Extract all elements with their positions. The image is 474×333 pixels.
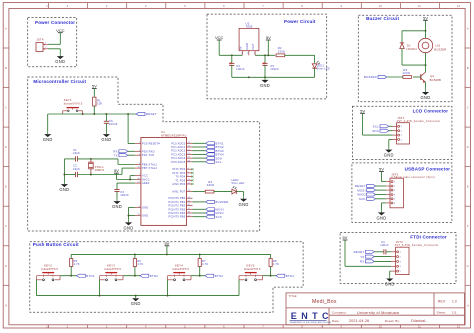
svg-text:PC5 ADC5: PC5 ADC5 — [171, 160, 185, 164]
svg-text:E: E — [5, 185, 7, 189]
svg-text:100nF: 100nF — [109, 122, 118, 126]
global label RESET ftdi — [354, 250, 375, 254]
svg-text:button6*6*6.5: button6*6*6.5 — [105, 268, 122, 271]
transistor Q1 BC548B — [421, 72, 441, 82]
global label BUZZER — [364, 75, 387, 79]
wire KEY5 node — [263, 275, 277, 277]
resistor R3 330 — [205, 180, 214, 193]
wire RX ftdi — [374, 260, 391, 262]
svg-text:5V: 5V — [164, 241, 169, 246]
svg-text:16: 16 — [188, 204, 190, 206]
svg-text:PD1 TXD: PD1 TXD — [142, 153, 154, 157]
global label RESET usbasp — [355, 184, 376, 188]
svg-text:SCK: SCK — [216, 215, 223, 219]
wire RX to PD0 — [128, 150, 135, 152]
wire base to R4 — [413, 76, 421, 78]
svg-text:13: 13 — [188, 190, 190, 192]
svg-text:22: 22 — [137, 214, 139, 216]
Power Connector dashed box — [28, 18, 77, 67]
power flag 5V usbasp — [379, 167, 384, 172]
svg-text:AIN1 PD7: AIN1 PD7 — [172, 190, 185, 194]
wire RESET usbasp — [376, 185, 386, 187]
svg-text:GND: GND — [142, 205, 148, 209]
wire 5V to pin3 — [362, 113, 364, 135]
wire caps to ground — [63, 159, 65, 182]
junction R5 bottom — [70, 275, 72, 277]
title block — [286, 293, 465, 325]
svg-text:LS1: LS1 — [435, 43, 441, 47]
svg-text:16MHz: 16MHz — [95, 168, 105, 172]
svg-text:GND: GND — [421, 95, 431, 100]
svg-text:1: 1 — [45, 43, 46, 45]
svg-text:4.7K: 4.7K — [273, 262, 279, 266]
svg-text:GND: GND — [59, 187, 69, 192]
svg-text:G: G — [467, 264, 469, 268]
global label BTN3 — [205, 274, 223, 278]
wire KEY2 to ground rail — [36, 280, 38, 296]
svg-text:PCINT5 PB5: PCINT5 PB5 — [169, 215, 186, 219]
svg-text:4.7K: 4.7K — [137, 262, 143, 266]
svg-text:VCC: VCC — [215, 35, 224, 40]
capacitor C6 100nF — [104, 114, 118, 132]
wire TX to PD1 — [128, 154, 135, 156]
connector JST3 2.54mm male 6pin — [386, 172, 435, 208]
global label SDA — [206, 156, 222, 160]
svg-text:PD0 RXD: PD0 RXD — [142, 149, 155, 153]
diode D1 1N4001 — [400, 43, 417, 51]
svg-text:1.0: 1.0 — [452, 300, 457, 304]
wire R3 to LED2 — [214, 191, 232, 193]
resistor R4 220 — [403, 68, 412, 79]
junction crystal top — [90, 158, 92, 160]
svg-text:RX: RX — [360, 260, 365, 264]
svg-text:JST4: JST4 — [36, 38, 44, 42]
svg-text:BUZZER: BUZZER — [364, 75, 377, 79]
wire VCC to regulator IN — [218, 40, 220, 55]
ground symbol MCU — [124, 220, 134, 231]
ground bus power circuit — [232, 76, 315, 78]
svg-text:22pF: 22pF — [73, 151, 80, 155]
global label SCK — [206, 215, 222, 219]
svg-text:University of Moratuwa: University of Moratuwa — [357, 311, 400, 315]
svg-text:JST_5-PIN_Female_Connector: JST_5-PIN_Female_Connector — [395, 244, 439, 247]
global label MISO — [206, 211, 225, 215]
wire PB4 to MISO — [193, 212, 206, 214]
global label RESET — [136, 112, 157, 116]
svg-text:1: 1 — [394, 182, 395, 184]
svg-text:GND: GND — [377, 215, 387, 220]
global label BTN4 — [276, 274, 294, 278]
ground symbol KEY1 — [43, 132, 53, 143]
wire 5V to R1 — [93, 89, 95, 98]
resistor R8 4.7K — [269, 254, 279, 275]
svg-text:18: 18 — [188, 212, 190, 214]
button 5V rail — [71, 253, 270, 255]
svg-text:2: 2 — [45, 47, 46, 49]
wire PD7 to R3 — [193, 191, 206, 193]
wire pin4 to ground — [389, 138, 393, 140]
svg-text:2: 2 — [401, 131, 402, 133]
svg-text:C: C — [467, 106, 469, 110]
svg-text:D1: D1 — [407, 44, 411, 48]
power flag 5V output — [266, 35, 271, 40]
svg-text:AVCC: AVCC — [142, 178, 150, 182]
svg-text:GND: GND — [55, 59, 65, 64]
junction R1 bottom — [93, 113, 95, 115]
ground symbol power circuit — [260, 77, 270, 88]
svg-text:100nF: 100nF — [120, 193, 129, 197]
wire 5V to rail — [166, 246, 168, 255]
svg-text:PCINT2 PB2: PCINT2 PB2 — [169, 204, 186, 208]
LED LED2 5mm — [232, 178, 245, 194]
svg-text:Power Connector: Power Connector — [35, 20, 75, 25]
svg-text:H: H — [467, 303, 469, 307]
svg-text:17: 17 — [188, 208, 190, 210]
svg-text:B: B — [5, 66, 7, 70]
switch KEY4 6x6mm — [168, 264, 192, 281]
switch KEY3 6x6mm — [100, 264, 124, 281]
wire SDA to pin2 — [389, 130, 393, 132]
svg-text:GND: GND — [112, 204, 122, 209]
svg-text:4: 4 — [188, 168, 189, 170]
svg-text:Company:: Company: — [332, 311, 347, 315]
svg-text:Drawn By:: Drawn By: — [385, 319, 400, 323]
ground symbol LED2 — [239, 196, 249, 207]
svg-text:PC0 ADC0: PC0 ADC0 — [171, 141, 185, 145]
wire KEY5 to ground rail — [238, 280, 240, 296]
ground symbol power connector — [55, 54, 65, 65]
wire PB1 to BUZZER label — [193, 201, 206, 203]
wire top branch to diode D1 — [402, 30, 426, 32]
wire KEY1 to ground — [47, 114, 49, 132]
wire MOSI usbasp — [376, 189, 386, 191]
svg-text:PC6 RESET#: PC6 RESET# — [142, 142, 160, 146]
wire SCL to pin1 — [389, 125, 393, 127]
svg-text:3: 3 — [400, 261, 401, 263]
power flag 5V lcd — [360, 108, 365, 113]
svg-text:PB7 XTAL2: PB7 XTAL2 — [142, 166, 158, 170]
wire R2 to LED1 — [285, 54, 315, 56]
wire MCU GND pins — [129, 206, 135, 208]
svg-text:5V: 5V — [343, 235, 348, 240]
svg-text:5V: 5V — [114, 168, 119, 173]
svg-text:Medi_Box: Medi_Box — [312, 299, 337, 305]
svg-text:AREF: AREF — [142, 181, 150, 185]
svg-text:2: 2 — [247, 53, 248, 55]
svg-text:330Ω: 330Ω — [207, 183, 214, 187]
global label BUZZER mcu — [206, 200, 229, 204]
switch KEY1 6x6mm — [63, 98, 83, 114]
resistor R2 220 — [276, 46, 285, 57]
svg-text:PC3 ADC3: PC3 ADC3 — [171, 152, 185, 156]
svg-text:5mm-LED: 5mm-LED — [317, 67, 330, 71]
svg-text:INT1 PD3: INT1 PD3 — [172, 171, 185, 175]
svg-text:4.7K: 4.7K — [74, 262, 80, 266]
connector JST2 5-pin female — [391, 240, 439, 275]
ENTC logo — [290, 311, 333, 324]
svg-text:LCD Connector: LCD Connector — [413, 108, 449, 113]
svg-text:R4: R4 — [403, 68, 407, 72]
svg-text:10K: 10K — [97, 102, 103, 106]
svg-text:6: 6 — [394, 203, 395, 205]
svg-text:E: E — [467, 185, 469, 189]
junction C5 on bus — [264, 76, 266, 78]
power flag VCC — [56, 28, 65, 33]
wire KEY3 to ground rail — [99, 280, 101, 296]
svg-text:Sheet:: Sheet: — [437, 310, 447, 314]
svg-text:BTN1: BTN1 — [86, 274, 94, 278]
crystal XTAL1 16MHz — [88, 159, 105, 175]
FTDI Connector dashed box — [340, 233, 456, 284]
wire TX ftdi — [374, 256, 391, 258]
resistor R7 4.7K — [198, 254, 208, 275]
wire R4 to BUZZER label — [387, 76, 403, 78]
svg-text:10: 10 — [137, 167, 139, 169]
svg-text:28: 28 — [188, 160, 190, 162]
svg-text:Push Button Circuit: Push Button Circuit — [33, 242, 79, 247]
svg-text:BTN4: BTN4 — [286, 274, 294, 278]
ground symbol ftdi — [385, 276, 395, 287]
junction 5V — [267, 54, 269, 56]
svg-text:SCL: SCL — [373, 125, 379, 129]
wires PC0-PC5 to labels — [193, 143, 206, 162]
wire 5V to pin4 ftdi — [344, 240, 346, 266]
wire SCK usbasp — [376, 198, 386, 200]
svg-text:SCK: SCK — [359, 197, 366, 201]
svg-text:PC4 ADC4: PC4 ADC4 — [171, 156, 185, 160]
svg-text:D: D — [5, 145, 7, 149]
svg-text:4: 4 — [400, 266, 401, 268]
svg-text:4.7K: 4.7K — [202, 262, 208, 266]
U1 right pins — [169, 141, 193, 218]
wire crystal row 2 — [64, 174, 75, 176]
global label SDA lcd — [372, 129, 388, 133]
junction R7 bottom — [199, 275, 201, 277]
wire LED1 to ground bus — [314, 68, 316, 77]
svg-text:PB6 XTAL1: PB6 XTAL1 — [142, 163, 158, 167]
svg-text:12: 12 — [188, 183, 190, 185]
wire emitter to ground — [425, 82, 427, 89]
global label TX ftdi — [360, 255, 374, 259]
wire connector pin 2 to GND — [48, 48, 60, 50]
junction rail GND — [135, 295, 137, 297]
global label TX — [114, 153, 128, 157]
svg-text:TITLE:: TITLE: — [289, 294, 298, 298]
svg-text:3: 3 — [139, 154, 140, 156]
regulator U2 7805 — [238, 22, 259, 56]
svg-text:22pF: 22pF — [73, 167, 80, 171]
Microcontroller Circuit dashed box — [28, 77, 260, 231]
power flag 5V reset pullup — [92, 84, 97, 89]
svg-text:1: 1 — [401, 126, 402, 128]
svg-text:24: 24 — [188, 146, 190, 148]
wire reset to pin 1 — [127, 114, 129, 144]
svg-text:27: 27 — [188, 157, 190, 159]
global label SCL — [206, 160, 222, 164]
connector JST4 — [36, 38, 48, 52]
wire crystal row 1 — [64, 158, 75, 160]
junction C5 top — [264, 54, 266, 56]
svg-text:4: 4 — [394, 194, 395, 196]
svg-text:RESET: RESET — [146, 112, 157, 116]
svg-text:ENTC: ENTC — [291, 311, 333, 321]
svg-text:REV:: REV: — [438, 300, 446, 304]
svg-text:H: H — [5, 303, 7, 307]
svg-text:TX: TX — [360, 255, 364, 259]
svg-text:A: A — [467, 26, 469, 30]
global label MISO usbasp — [357, 193, 375, 197]
svg-text:T0 PD4: T0 PD4 — [175, 175, 185, 179]
svg-text:BTN3: BTN3 — [215, 274, 223, 278]
junction regulator GND on bus — [248, 76, 250, 78]
global label SCK usbasp — [359, 197, 375, 201]
svg-text:JST_4-PIN_Female_Connector: JST_4-PIN_Female_Connector — [397, 120, 441, 123]
wire KEY3 node — [123, 275, 140, 277]
svg-text:14: 14 — [188, 197, 190, 199]
power flag 5V buttons — [164, 241, 169, 246]
global label BTN3 — [206, 149, 224, 153]
junction R6 bottom — [134, 275, 136, 277]
junction VCC branch — [129, 179, 131, 181]
Push Button Circuit dashed box — [30, 242, 303, 313]
svg-text:26: 26 — [188, 153, 190, 155]
svg-text:DilankaL: DilankaL — [411, 319, 427, 323]
svg-text:5: 5 — [394, 199, 395, 201]
svg-text:GND: GND — [124, 225, 134, 230]
capacitor C4 100nF — [229, 55, 245, 77]
svg-text:2021-04-26: 2021-04-26 — [349, 319, 369, 323]
reset net wire — [48, 113, 137, 115]
svg-text:G: G — [5, 264, 7, 268]
svg-text:B: B — [467, 66, 469, 70]
svg-text:ATMEGA328P-PU: ATMEGA328P-PU — [161, 133, 187, 137]
svg-text:PCINT4 PB4: PCINT4 PB4 — [169, 211, 186, 215]
ground symbol crystal — [59, 182, 69, 193]
wire diode bottom to buzzer line — [401, 49, 403, 66]
svg-text:220Ω: 220Ω — [403, 71, 410, 75]
power flag 5V AVCC — [114, 168, 119, 173]
svg-text:1: 1 — [139, 142, 140, 144]
wire LED2 to ground — [236, 191, 243, 193]
svg-text:100nF: 100nF — [270, 67, 279, 71]
ground symbol lcd — [384, 147, 394, 158]
svg-text:100nF: 100nF — [380, 243, 389, 247]
power flag VCC input — [215, 35, 224, 40]
svg-text:PCINT1 PB1: PCINT1 PB1 — [169, 200, 186, 204]
svg-text:5: 5 — [188, 172, 189, 174]
svg-text:button6*6*6.5: button6*6*6.5 — [42, 268, 59, 271]
LCD Connector dashed box — [352, 106, 452, 159]
svg-text:OUT: OUT — [251, 43, 255, 49]
svg-text:USBASP Connector: USBASP Connector — [405, 166, 451, 171]
svg-text:Date:: Date: — [332, 319, 340, 323]
junction rail R6 — [134, 253, 136, 255]
resistor R1 10K — [93, 97, 103, 106]
svg-text:6: 6 — [188, 175, 189, 177]
svg-text:11: 11 — [188, 179, 190, 181]
global label MOSI usbasp — [357, 188, 375, 192]
power flag 5V ftdi — [343, 235, 348, 240]
op-amp U1 ATMEGA328P-PU body — [141, 130, 187, 225]
LED LED1 5mm — [312, 61, 330, 71]
svg-text:4: 4 — [401, 139, 402, 141]
global label MOSI — [206, 208, 224, 212]
junction C2 left — [63, 174, 65, 176]
svg-text:1: 1 — [400, 252, 401, 254]
svg-text:5: 5 — [400, 271, 401, 273]
svg-text:Buzzer Circuit: Buzzer Circuit — [366, 16, 399, 21]
svg-text:VCC: VCC — [142, 174, 148, 178]
global label BTN2 — [140, 274, 158, 278]
svg-text:5mm LED: 5mm LED — [232, 181, 245, 185]
junction C4 top — [231, 54, 233, 56]
svg-text:PCINT3 PB3: PCINT3 PB3 — [169, 207, 186, 211]
svg-text:BUZZER: BUZZER — [216, 200, 229, 204]
wire buzzer to transistor collector — [425, 53, 427, 72]
svg-text:PCINT0 PB0: PCINT0 PB0 — [169, 196, 186, 200]
junction C6 top — [105, 113, 107, 115]
wire 5V to AVCC and VCC — [115, 173, 117, 179]
switch KEY2 6x6mm — [37, 264, 61, 281]
svg-text:15: 15 — [188, 201, 190, 203]
wire RESET to C3 ftdi — [374, 251, 384, 253]
svg-text:220Ω: 220Ω — [278, 49, 285, 53]
wire KEY4 to ground rail — [167, 280, 169, 296]
svg-text:GND: GND — [142, 214, 148, 218]
svg-text:Q1: Q1 — [430, 74, 434, 78]
svg-text:25: 25 — [188, 149, 190, 151]
svg-text:1N4001: 1N4001 — [406, 47, 417, 51]
svg-text:SDA: SDA — [372, 129, 379, 133]
svg-text:INT0 PD2: INT0 PD2 — [172, 167, 185, 171]
global label RX — [113, 150, 127, 154]
wire MISO usbasp — [376, 194, 386, 196]
wire pin6 to ground usbasp — [382, 202, 386, 204]
svg-text:FTDI Connector: FTDI Connector — [410, 235, 447, 240]
capacitor C3 100nF — [114, 190, 129, 199]
global label SCL lcd — [373, 125, 389, 129]
junction GND pins — [128, 215, 130, 217]
svg-text:PC1 ADC1: PC1 ADC1 — [171, 145, 185, 149]
connector JST1 — [393, 116, 441, 144]
capacitor C2 22pF — [73, 164, 80, 177]
svg-text:GND: GND — [245, 43, 249, 50]
svg-text:7: 7 — [139, 174, 140, 176]
no-connect flags PD2-PD6 — [191, 168, 193, 185]
ground symbol buttons — [131, 296, 141, 307]
global label BTN1 — [77, 274, 95, 278]
ground symbol C3 — [112, 199, 122, 210]
buzzer LS1 — [418, 35, 446, 53]
capacitor C5 100nF — [262, 55, 279, 77]
svg-text:BC548B: BC548B — [430, 78, 441, 82]
svg-text:3: 3 — [254, 53, 255, 55]
svg-text:2: 2 — [139, 150, 140, 152]
svg-text:KEY1: KEY1 — [64, 98, 72, 102]
svg-text:T1 PD5: T1 PD5 — [175, 178, 185, 182]
svg-text:PC2 ADC2: PC2 ADC2 — [171, 149, 185, 153]
svg-text:AIN0 PD6: AIN0 PD6 — [172, 182, 185, 186]
svg-text:3: 3 — [394, 190, 395, 192]
svg-text:7805: 7805 — [246, 25, 253, 29]
svg-text:Microcontroller Circuit: Microcontroller Circuit — [33, 79, 86, 84]
svg-text:1/1: 1/1 — [452, 310, 457, 314]
svg-text:D: D — [467, 145, 469, 149]
wire PB3 to MOSI — [193, 208, 206, 210]
junction rail R7 — [199, 253, 201, 255]
junction KEY1 right — [82, 113, 84, 115]
junction crystal bottom — [90, 174, 92, 176]
